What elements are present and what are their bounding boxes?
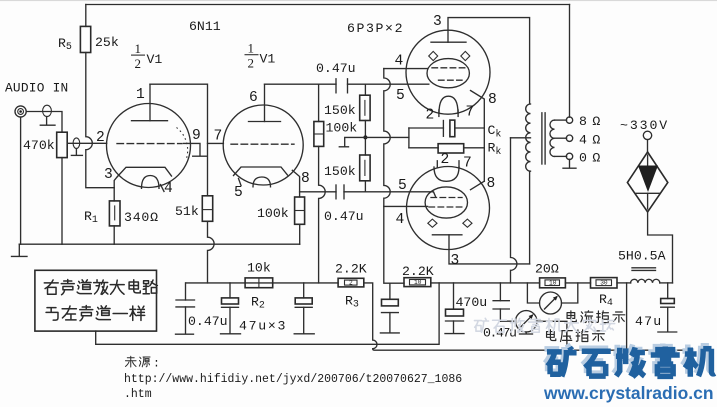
resistor 150k upper xyxy=(360,95,370,120)
heater stubs 2 7 bottom tube xyxy=(436,161,438,167)
wire 51k down, hop over bus, to B+ row xyxy=(208,221,215,283)
svg-text:~330V: ~330V xyxy=(620,118,669,133)
wire cap to grid pin5 top tube xyxy=(348,83,429,85)
svg-text:R1: R1 xyxy=(84,209,98,226)
svg-text:2: 2 xyxy=(248,56,255,71)
V2top beam diamonds xyxy=(429,51,438,60)
wire mid 100k column from plate2 node down, hop, to B+ row xyxy=(319,84,326,283)
pentode V2 bottom envelope xyxy=(407,167,490,250)
svg-text:9: 9 xyxy=(192,128,201,144)
output transformer primary xyxy=(529,171,531,264)
triode V1b envelope xyxy=(223,105,303,185)
HV terminal xyxy=(643,131,651,139)
cathode bus between tubes xyxy=(483,128,485,181)
wire pin4 top tube xyxy=(384,68,428,70)
svg-text:470u: 470u xyxy=(456,295,488,310)
ghost watermark xyxy=(474,318,614,332)
svg-text:V1: V1 xyxy=(260,52,276,67)
source line xyxy=(125,356,150,367)
svg-text:1: 1 xyxy=(135,41,142,56)
svg-text:8: 8 xyxy=(487,176,496,192)
V2bot beam diamonds xyxy=(428,219,437,227)
svg-text:AUDIO IN: AUDIO IN xyxy=(5,81,68,96)
resistor Rk xyxy=(409,147,438,149)
capacitor 0.47u upper coupling xyxy=(335,79,337,93)
svg-text:2: 2 xyxy=(135,56,142,71)
wire grid pin7 tube2 xyxy=(208,142,224,144)
triode V1a envelope xyxy=(107,104,191,188)
V2bot screen dashes xyxy=(431,197,462,199)
V2top heater dome xyxy=(439,96,458,113)
big blue watermark xyxy=(547,347,715,377)
resistor R5 25k xyxy=(80,26,90,52)
wire bias node to 150k center tap xyxy=(365,136,409,138)
svg-text:5: 5 xyxy=(398,178,407,194)
svg-text:100k: 100k xyxy=(257,206,289,221)
wire jack down to ground bus xyxy=(20,117,22,244)
wire R1 to bus xyxy=(113,226,115,244)
ground symbol at bus left end xyxy=(18,244,20,256)
svg-text:47u×3: 47u×3 xyxy=(239,319,287,334)
47u cap no3 xyxy=(389,283,391,299)
V2top screen dashes xyxy=(432,67,466,69)
wire 150k lower bottom lead xyxy=(364,181,366,192)
svg-text:4: 4 xyxy=(396,212,405,228)
svg-text:8Ω: 8Ω xyxy=(579,114,606,129)
V1a shield dotted arc pin9 xyxy=(177,128,188,161)
47u cap no1 xyxy=(229,283,231,298)
svg-text:3: 3 xyxy=(451,253,460,269)
resistor 100k cathode V1b xyxy=(295,197,305,224)
svg-text:1: 1 xyxy=(248,41,255,56)
voltage meter xyxy=(500,320,515,322)
svg-text:7: 7 xyxy=(463,156,472,172)
ground bus xyxy=(19,243,299,245)
V2bot heater dome inverted xyxy=(434,167,459,181)
V2bot inner circle xyxy=(425,187,467,218)
svg-text:2.2K: 2.2K xyxy=(335,262,367,277)
capacitor Ck xyxy=(409,127,444,129)
svg-text:51k: 51k xyxy=(175,204,199,219)
svg-text:20Ω: 20Ω xyxy=(535,262,559,277)
svg-text:1: 1 xyxy=(136,87,145,103)
wire choke to R4 xyxy=(617,282,631,284)
B+ feed to right channel: down lead and long wire xyxy=(96,283,439,344)
svg-text:8: 8 xyxy=(301,171,310,187)
V2top pin3 lead up and over to transformer xyxy=(448,18,530,104)
svg-text:10k: 10k xyxy=(247,261,271,276)
svg-text:Rk: Rk xyxy=(488,141,502,159)
resistor R2 10k xyxy=(245,278,273,288)
svg-text:150k: 150k xyxy=(324,164,356,179)
svg-text:0.47u: 0.47u xyxy=(324,209,364,224)
V1b cathode xyxy=(234,167,288,176)
svg-text:2: 2 xyxy=(426,108,435,124)
feedback from 8ohm tap up to rail xyxy=(569,5,571,118)
svg-text:47u: 47u xyxy=(635,314,662,329)
wire pin4 bottom tube xyxy=(384,205,428,207)
V1b pin6 lead xyxy=(264,84,266,121)
svg-text:3: 3 xyxy=(104,167,113,183)
secondary taps xyxy=(555,119,567,121)
V2top plate bar xyxy=(431,41,466,43)
pin 4 stub xyxy=(161,185,165,192)
svg-text:30: 30 xyxy=(600,280,608,287)
wire 100k bottom to bus corner xyxy=(299,224,301,244)
V1b plate bar xyxy=(249,121,281,123)
label 1/2 V1 second xyxy=(245,41,276,71)
svg-text:5H0.5A: 5H0.5A xyxy=(618,249,666,264)
svg-text:4: 4 xyxy=(164,181,173,197)
current meter right lead xyxy=(562,283,578,303)
V1b heater dome xyxy=(253,177,271,187)
resistor 150k lower xyxy=(360,155,370,181)
svg-text:http://www.hifidiy.net/jyxd/20: http://www.hifidiy.net/jyxd/200706/t2007… xyxy=(124,373,462,386)
V1a pin1 lead xyxy=(149,84,151,121)
svg-text:7: 7 xyxy=(214,129,223,145)
node: input jack xyxy=(15,106,26,117)
feedback top rail xyxy=(86,4,570,6)
connector plug on input wire xyxy=(43,105,52,116)
wire lower grid line from cathode V1b xyxy=(300,191,336,193)
svg-text:470k: 470k xyxy=(23,138,55,153)
svg-text:7: 7 xyxy=(466,105,475,121)
svg-text:340Ω: 340Ω xyxy=(124,210,159,225)
wire 470k wiper to grid pin2 xyxy=(67,142,106,144)
capacitor 0.47u lower coupling xyxy=(335,185,337,199)
V1a heater dome xyxy=(142,176,160,189)
svg-text:4Ω: 4Ω xyxy=(579,133,606,148)
V1b grid dashed xyxy=(231,143,294,145)
svg-text:6: 6 xyxy=(249,90,258,106)
V2top inner circle xyxy=(427,59,469,88)
svg-text:2.2K: 2.2K xyxy=(402,264,434,279)
svg-text:R5: R5 xyxy=(58,36,72,53)
wire plate1 to grid2 coupling xyxy=(150,84,208,196)
resistor 51k xyxy=(202,196,212,222)
V2bot plate bar xyxy=(432,234,462,236)
wire B+ center tap down with hop xyxy=(511,138,517,283)
svg-text:5: 5 xyxy=(234,185,243,201)
wire R5 bottom lead with hop over grid wire xyxy=(86,53,114,188)
transformer core xyxy=(541,113,543,164)
resistor 100k middle xyxy=(314,122,324,147)
current indicator meter xyxy=(540,292,562,314)
wire 470k bottom to bus xyxy=(61,158,63,245)
heater pin stubs 2 7 xyxy=(438,110,440,116)
svg-text:6N11: 6N11 xyxy=(189,19,221,34)
ground at 0 ohm tap xyxy=(569,159,571,167)
svg-text:www.crystalradio.cn: www.crystalradio.cn xyxy=(543,383,714,403)
svg-text:0Ω: 0Ω xyxy=(579,151,606,166)
wire 20ohm left to B+ junctions xyxy=(431,282,540,284)
right channel note box xyxy=(35,270,157,331)
voltage meter ground tick xyxy=(525,332,527,333)
wire plate2 to coupling cap xyxy=(265,83,337,85)
wire 150k junction down xyxy=(364,121,366,156)
svg-text:10: 10 xyxy=(414,279,422,286)
node junction dot xyxy=(363,135,367,139)
current meter branch left xyxy=(527,283,539,303)
V2bot pin3 lead to transformer bottom xyxy=(449,235,530,264)
svg-text:10: 10 xyxy=(549,280,557,287)
0.47u meter cap xyxy=(499,283,501,301)
svg-text:2: 2 xyxy=(96,130,105,146)
wire choke junction down xyxy=(626,283,628,350)
resistor R4 xyxy=(591,278,618,288)
row 0.47u cap xyxy=(185,283,187,300)
B+ filtered row wire left part xyxy=(186,282,338,284)
V2top pin8 cathode diagonal xyxy=(471,91,485,129)
svg-text:R3: R3 xyxy=(345,294,359,311)
wire R3 right down with hop to right ground rail xyxy=(364,283,690,350)
diode inside xyxy=(647,155,649,166)
label 1/2 V1 first xyxy=(131,41,162,71)
pin 5 stub xyxy=(239,179,242,186)
470u filter cap xyxy=(453,283,455,309)
svg-text:3: 3 xyxy=(433,14,442,30)
big blue watermark echo xyxy=(544,344,712,374)
pin 3 lead xyxy=(114,177,117,201)
wire rectifier to choke corner xyxy=(648,212,673,283)
svg-text:0.47u: 0.47u xyxy=(316,61,356,76)
svg-text:8: 8 xyxy=(488,92,497,108)
connector plug on grid wire xyxy=(73,138,80,149)
page top border xyxy=(0,0,717,1)
svg-text:100k: 100k xyxy=(326,121,358,136)
svg-text:150k: 150k xyxy=(324,103,356,118)
bracket joining Ck Rk left xyxy=(408,128,410,148)
ground tick at 150k center tap xyxy=(345,137,366,146)
primary center tap xyxy=(511,137,531,139)
svg-text:0.47u: 0.47u xyxy=(483,326,516,341)
secondary terminals xyxy=(566,117,572,123)
svg-text:2: 2 xyxy=(441,152,450,168)
voltage meter right lead down to rail xyxy=(537,321,567,350)
rectifier bridge diamond xyxy=(647,140,649,152)
svg-text:2: 2 xyxy=(349,280,353,287)
47u cap no2 xyxy=(303,283,305,298)
wire jack to 470k top xyxy=(26,112,62,133)
svg-text::: : xyxy=(153,358,160,371)
wire R5 top lead xyxy=(85,5,87,27)
svg-text:6P3P×2: 6P3P×2 xyxy=(347,21,404,36)
resistor R1 340 ohm xyxy=(109,201,120,226)
svg-text:25k: 25k xyxy=(95,35,119,50)
svg-text:R2: R2 xyxy=(251,295,265,312)
svg-text:V1: V1 xyxy=(147,52,163,67)
pin9 stub and tick xyxy=(184,143,201,155)
output 47u cap xyxy=(667,283,669,299)
wire R4 to 20ohm xyxy=(565,282,590,284)
potentiometer 470k xyxy=(57,132,67,157)
resistor 2.2K screen feed xyxy=(404,278,431,287)
resistor 20 ohm xyxy=(540,278,566,288)
V1a plate bar xyxy=(132,120,168,122)
wire 150k upper top lead xyxy=(364,84,366,95)
svg-text:0.47u: 0.47u xyxy=(188,314,228,329)
screens vertical wire with two hops xyxy=(384,69,404,284)
V2bot pin8 cathode diagonal xyxy=(471,181,485,190)
svg-text:R4: R4 xyxy=(599,292,613,309)
pentode V2 top envelope xyxy=(406,30,490,114)
pin 8 lead diagonal to cathode resistor xyxy=(292,170,299,197)
V1a cathode xyxy=(118,167,172,176)
svg-text:Ck: Ck xyxy=(488,123,502,141)
svg-text:.htm: .htm xyxy=(124,388,152,401)
secondary winding xyxy=(550,120,555,156)
meter captions xyxy=(547,311,625,342)
box text: right channel amplifier same as left channel xyxy=(44,280,157,321)
V1a grid dashed xyxy=(117,143,182,145)
resistor R3 2.2K xyxy=(338,278,364,287)
svg-text:4: 4 xyxy=(395,54,404,70)
svg-text:5: 5 xyxy=(396,88,405,104)
